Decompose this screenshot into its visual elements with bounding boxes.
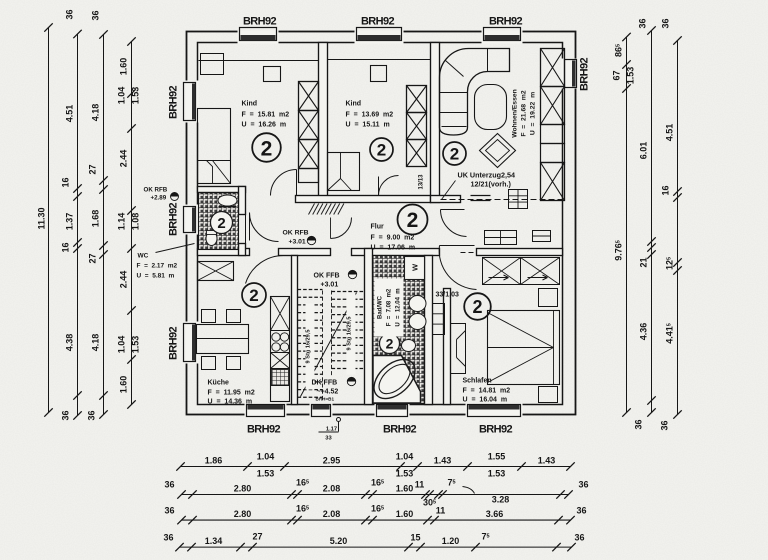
svg-text:4.18: 4.18 — [91, 334, 101, 352]
svg-text:1.55: 1.55 — [488, 452, 506, 462]
svg-text:Flur: Flur — [371, 224, 384, 231]
svg-text:1.37: 1.37 — [65, 213, 75, 231]
svg-text:1.53: 1.53 — [626, 67, 636, 85]
svg-text:67: 67 — [612, 70, 622, 80]
svg-text:6.01: 6.01 — [639, 142, 649, 160]
svg-text:2.80: 2.80 — [234, 484, 252, 494]
svg-text:2.80: 2.80 — [234, 509, 252, 519]
svg-text:1.04: 1.04 — [117, 336, 127, 354]
svg-text:BRH92: BRH92 — [168, 85, 180, 119]
svg-text:2: 2 — [261, 138, 273, 161]
svg-text:Küche: Küche — [208, 380, 230, 387]
svg-text:U = 16.26 m: U = 16.26 m — [242, 122, 287, 129]
svg-text:16: 16 — [661, 185, 671, 195]
svg-text:2: 2 — [450, 145, 459, 164]
svg-text:1.14: 1.14 — [117, 213, 127, 231]
svg-text:1.53: 1.53 — [131, 87, 141, 105]
svg-text:F = 15.81 m2: F = 15.81 m2 — [242, 112, 290, 119]
svg-text:Schlafen: Schlafen — [463, 378, 492, 385]
svg-text:2: 2 — [377, 141, 386, 160]
svg-text:~+4.52: ~+4.52 — [317, 389, 339, 396]
svg-text:1.43: 1.43 — [434, 456, 452, 466]
svg-text:F = 7.08 m2: F = 7.08 m2 — [387, 288, 393, 326]
svg-text:Wohnen/Essen: Wohnen/Essen — [512, 89, 519, 138]
svg-text:U = 16.04 m: U = 16.04 m — [463, 397, 508, 404]
svg-text:Bad/WC: Bad/WC — [378, 295, 384, 319]
svg-text:21: 21 — [639, 257, 649, 267]
svg-text:1.68: 1.68 — [91, 210, 101, 228]
svg-text:4.51: 4.51 — [65, 105, 75, 123]
svg-text:36: 36 — [164, 506, 174, 516]
svg-text:11: 11 — [436, 506, 446, 516]
svg-text:BRH92: BRH92 — [489, 16, 523, 28]
svg-text:1.04: 1.04 — [396, 452, 414, 462]
svg-text:1.53: 1.53 — [257, 469, 275, 479]
svg-text:+2.89: +2.89 — [151, 195, 167, 202]
svg-text:2.95: 2.95 — [323, 456, 341, 466]
svg-text:2: 2 — [407, 209, 419, 232]
svg-text:1.86: 1.86 — [205, 456, 223, 466]
svg-text:9 Stg 16/29,5: 9 Stg 16/29,5 — [347, 317, 353, 351]
svg-text:36: 36 — [163, 533, 173, 543]
svg-text:2.08: 2.08 — [323, 484, 341, 494]
svg-text:11.30: 11.30 — [37, 207, 47, 229]
svg-text:1.04: 1.04 — [117, 87, 127, 105]
svg-text:U = 14.36 m: U = 14.36 m — [208, 399, 253, 406]
svg-text:BRH92: BRH92 — [579, 57, 591, 91]
svg-text:3.66: 3.66 — [486, 509, 504, 519]
svg-text:36: 36 — [634, 419, 644, 429]
svg-text:33: 33 — [325, 436, 332, 442]
svg-text:F = 11.95 m2: F = 11.95 m2 — [208, 390, 255, 397]
svg-text:36: 36 — [638, 18, 648, 28]
svg-text:2: 2 — [217, 215, 225, 232]
svg-text:36: 36 — [164, 480, 174, 490]
svg-text:+3.01: +3.01 — [289, 239, 306, 246]
svg-text:2: 2 — [249, 286, 258, 305]
svg-text:9.765: 9.765 — [614, 240, 624, 261]
svg-text:Kind: Kind — [346, 101, 362, 108]
svg-text:BRH92: BRH92 — [168, 202, 180, 236]
svg-text:36: 36 — [660, 420, 670, 430]
svg-text:W: W — [411, 263, 420, 271]
svg-text:27: 27 — [88, 253, 98, 263]
svg-text:12/21(vorh.): 12/21(vorh.) — [471, 180, 512, 189]
svg-text:1.34: 1.34 — [205, 536, 223, 546]
svg-text:2: 2 — [472, 297, 482, 317]
svg-text:BRH92: BRH92 — [168, 326, 180, 360]
svg-text:13/13: 13/13 — [419, 174, 425, 190]
svg-text:4.38: 4.38 — [65, 334, 75, 352]
svg-text:U = 15.11 m: U = 15.11 m — [346, 122, 390, 129]
svg-text:BRH92: BRH92 — [247, 424, 281, 436]
svg-text:BRH92: BRH92 — [383, 424, 417, 436]
svg-text:OK FFB: OK FFB — [314, 273, 340, 280]
svg-text:36: 36 — [574, 533, 584, 543]
svg-text:BRH92: BRH92 — [243, 16, 277, 28]
svg-text:9 Stg 16/29,5: 9 Stg 16/29,5 — [306, 330, 312, 364]
svg-text:1.04: 1.04 — [257, 452, 275, 462]
svg-text:36: 36 — [576, 506, 586, 516]
svg-text:36: 36 — [65, 9, 75, 19]
svg-text:WC: WC — [138, 253, 149, 260]
svg-text:1.53: 1.53 — [488, 469, 506, 479]
svg-text:U = 5.81 m: U = 5.81 m — [137, 273, 175, 280]
svg-text:2: 2 — [386, 336, 394, 352]
svg-text:36: 36 — [91, 10, 101, 20]
svg-text:11: 11 — [415, 480, 425, 490]
svg-text:2.44: 2.44 — [119, 271, 129, 289]
svg-text:27: 27 — [88, 164, 98, 174]
svg-text:27: 27 — [252, 532, 262, 542]
svg-text:1.53: 1.53 — [131, 336, 141, 354]
svg-text:1.17: 1.17 — [326, 427, 337, 433]
svg-text:1.60: 1.60 — [119, 376, 129, 394]
svg-text:36: 36 — [578, 480, 588, 490]
svg-text:4.51: 4.51 — [665, 124, 675, 142]
svg-text:1.20: 1.20 — [442, 536, 460, 546]
svg-text:15: 15 — [410, 533, 420, 543]
svg-text:16: 16 — [61, 177, 71, 187]
svg-text:BRH=B1: BRH=B1 — [316, 397, 335, 402]
svg-text:UK Unterzug2,54: UK Unterzug2,54 — [458, 171, 516, 180]
svg-text:4.36: 4.36 — [639, 323, 649, 341]
svg-text:OK RFB: OK RFB — [144, 187, 168, 194]
svg-text:+3.01: +3.01 — [321, 282, 339, 289]
svg-text:F = 14.81 m2: F = 14.81 m2 — [463, 388, 511, 395]
svg-text:4.415: 4.415 — [665, 323, 675, 344]
svg-text:U = 12.04 m: U = 12.04 m — [396, 288, 402, 326]
svg-text:BRH92: BRH92 — [479, 424, 513, 436]
svg-text:F = 9.00 m2: F = 9.00 m2 — [371, 235, 415, 242]
svg-text:F = 13.69 m2: F = 13.69 m2 — [346, 112, 394, 119]
svg-text:OK RFB: OK RFB — [283, 230, 309, 237]
svg-text:1.60: 1.60 — [396, 484, 414, 494]
svg-text:2.08: 2.08 — [323, 509, 341, 519]
svg-text:U = 19.22 m: U = 19.22 m — [530, 92, 537, 135]
svg-text:1.08: 1.08 — [131, 213, 141, 231]
svg-text:1.60: 1.60 — [396, 509, 414, 519]
svg-text:1.43: 1.43 — [538, 456, 556, 466]
svg-text:1.60: 1.60 — [119, 58, 129, 76]
svg-text:36: 36 — [87, 410, 97, 420]
svg-text:2.44: 2.44 — [119, 150, 129, 168]
svg-text:BRH92: BRH92 — [361, 16, 395, 28]
svg-text:DK FFB: DK FFB — [312, 380, 338, 387]
svg-text:F = 2.17 m2: F = 2.17 m2 — [137, 263, 178, 270]
svg-text:4.18: 4.18 — [91, 104, 101, 122]
svg-text:36: 36 — [61, 410, 71, 420]
svg-text:3.28: 3.28 — [492, 495, 510, 505]
svg-text:33/1,03: 33/1,03 — [436, 292, 459, 299]
svg-text:U = 17.06 m: U = 17.06 m — [371, 245, 416, 252]
svg-text:16: 16 — [61, 242, 71, 252]
svg-text:1.53: 1.53 — [396, 469, 414, 479]
svg-text:F = 21.68 m2: F = 21.68 m2 — [521, 90, 528, 137]
svg-text:36: 36 — [661, 18, 671, 28]
svg-text:Kind: Kind — [242, 101, 258, 108]
svg-text:5.20: 5.20 — [330, 536, 348, 546]
